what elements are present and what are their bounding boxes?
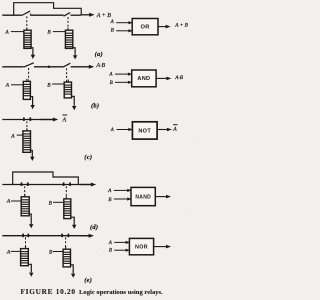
contact B (d) NC ticks <box>64 182 70 186</box>
relay coil B (e) <box>63 247 71 267</box>
wire (d) parallel branch <box>13 172 79 185</box>
paper speckles (decorative scan noise) <box>2 55 199 287</box>
control link A (b) dashed <box>28 68 30 81</box>
relay coil B (d) <box>63 196 71 218</box>
svg-text:(b): (b) <box>91 102 99 109</box>
svg-text:NOR: NOR <box>135 244 148 250</box>
relay coil A (d) <box>21 194 30 216</box>
input arrow B (AND) <box>115 81 132 84</box>
supply arrow below coil B (e) <box>70 265 75 278</box>
svg-text:A: A <box>10 133 15 139</box>
wire (c) input <box>2 119 52 121</box>
lead line B (b) <box>52 83 64 85</box>
contact A (d) NC ticks <box>22 182 28 186</box>
control link B (b) dashed <box>66 68 68 81</box>
svg-text:OR: OR <box>140 24 150 30</box>
svg-text:A: A <box>6 249 11 255</box>
control link B (d) dashed <box>65 186 67 198</box>
supply arrow below coil A (e) <box>28 264 33 277</box>
output arrow (c) <box>40 118 58 122</box>
svg-text:A·B: A·B <box>95 63 105 69</box>
input arrow A (NOT) <box>117 128 133 131</box>
svg-text:A + B: A + B <box>96 13 111 19</box>
control link A (d) dashed <box>24 186 26 196</box>
input arrow B (OR) <box>116 29 133 32</box>
wire (b) input <box>2 66 23 68</box>
supply arrow below coil A (d) <box>29 214 33 228</box>
contact A (a) fixed tick <box>29 13 31 15</box>
relay coil A (a) <box>24 28 32 49</box>
lead line A (a) <box>11 31 24 33</box>
relay coil A (c) <box>23 128 31 152</box>
control link B (e) dashed <box>65 237 67 249</box>
input arrow A (AND) <box>115 73 132 76</box>
gate box NAND <box>131 187 155 205</box>
lead line A (c) <box>17 134 23 136</box>
supply arrow below coil A (a) <box>31 48 35 59</box>
contact B (e) NC ticks <box>62 234 68 238</box>
svg-text:AND: AND <box>137 76 150 82</box>
relay coil A (e) <box>20 246 29 266</box>
wire (a) parallel branch <box>14 3 82 16</box>
relay coil B (a) <box>65 28 73 49</box>
svg-text:A: A <box>172 126 177 132</box>
input arrow A (OR) <box>116 21 133 24</box>
contact A (e) NC ticks <box>23 234 28 238</box>
input arrow A (NAND) <box>114 189 132 192</box>
gate box AND <box>132 70 156 87</box>
lead line A (e) <box>11 250 21 252</box>
overbar (NOT output) <box>173 124 178 126</box>
contact A (b) NO blade <box>24 63 34 67</box>
output arrow (d) <box>80 183 96 187</box>
output arrow (NOT) <box>157 128 172 132</box>
lead line B (d) <box>53 201 64 203</box>
wire (a) input <box>2 14 21 16</box>
output arrow (OR) <box>158 25 171 29</box>
lead line A (b) <box>11 84 23 86</box>
lead line B (a) <box>53 31 66 33</box>
output arrow (a) <box>81 13 94 17</box>
relay coil B (b) <box>64 80 72 98</box>
svg-text:FIGURE 10.20Logic operations u: FIGURE 10.20Logic operations using relay… <box>21 287 164 296</box>
svg-text:B: B <box>111 28 114 34</box>
output arrow (e) <box>80 234 94 238</box>
svg-text:A·B: A·B <box>174 75 184 81</box>
gate box NOR <box>129 238 153 254</box>
junction dot (b) <box>48 66 51 69</box>
lead line A (d) <box>11 200 21 202</box>
svg-text:B: B <box>108 197 111 203</box>
svg-text:(a): (a) <box>95 51 103 58</box>
contact B (b) NO blade <box>63 63 70 67</box>
control link A (e) dashed <box>25 237 27 248</box>
wire (a) between contacts <box>31 14 64 16</box>
input arrow B (NAND) <box>114 197 132 200</box>
control link A (a) dashed <box>26 16 28 29</box>
wire (b) between contacts <box>34 66 63 68</box>
control link B (a) dashed <box>67 17 69 30</box>
output arrow (b) <box>71 65 95 69</box>
svg-text:A: A <box>4 30 9 36</box>
svg-text:A: A <box>110 128 114 133</box>
gate box OR <box>132 19 158 35</box>
svg-text:A: A <box>5 83 10 89</box>
svg-text:NAND: NAND <box>135 194 151 200</box>
contact A (c) NC ticks <box>24 117 30 121</box>
svg-text:NOT: NOT <box>138 128 151 134</box>
svg-text:B: B <box>109 247 112 253</box>
control link A (c) dashed <box>26 121 28 130</box>
svg-text:A + B: A + B <box>174 23 188 29</box>
wire (e) main <box>2 235 88 237</box>
relay coil A (b) <box>23 79 31 100</box>
contact B (a) NO blade <box>64 13 71 17</box>
wire (d) main <box>2 184 90 186</box>
output arrow (NAND) <box>155 195 171 199</box>
svg-text:(c): (c) <box>84 154 92 161</box>
output arrow (NOR) <box>154 245 171 249</box>
lead line B (e) <box>53 251 63 253</box>
svg-text:A: A <box>62 118 67 124</box>
svg-text:(d): (d) <box>90 224 98 231</box>
contact A (a) NO blade <box>22 11 31 15</box>
svg-text:B: B <box>110 80 113 86</box>
svg-text:(e): (e) <box>84 277 92 284</box>
gate box NOT <box>132 122 157 139</box>
supply arrow below coil B (a) <box>73 48 78 60</box>
overbar (c node) <box>62 114 67 116</box>
supply arrow below coil A (b) <box>30 97 35 110</box>
input arrow B (NOR) <box>114 249 130 252</box>
wire (a) after contact B <box>71 14 82 16</box>
svg-text:A: A <box>6 199 11 205</box>
input arrow A (NOR) <box>114 241 130 244</box>
output arrow (AND) <box>156 77 171 81</box>
supply arrow below coil A (c) <box>30 150 34 161</box>
supply arrow below coil B (b) <box>71 96 76 110</box>
supply arrow below coil B (d) <box>71 217 77 229</box>
